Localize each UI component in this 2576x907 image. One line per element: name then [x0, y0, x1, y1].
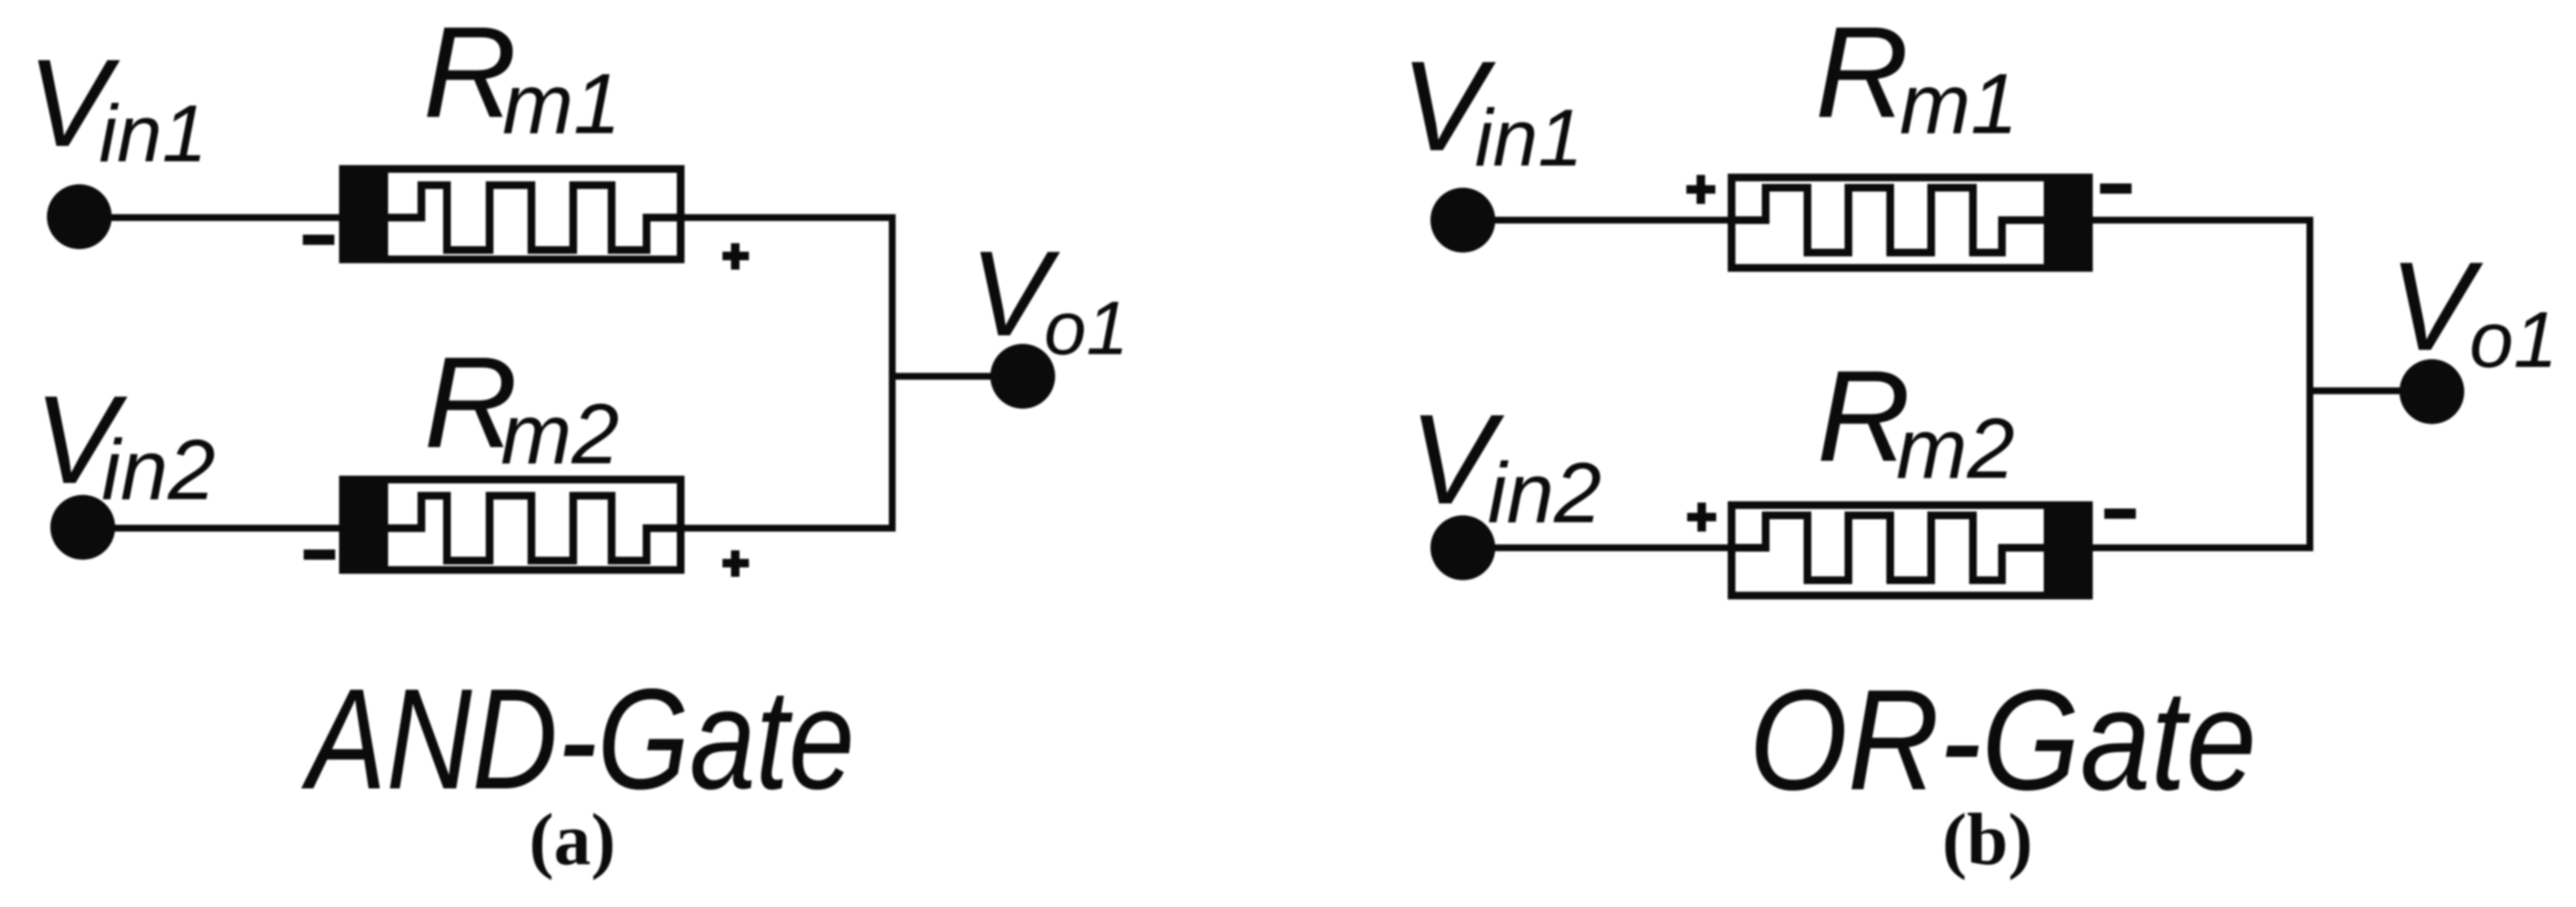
polarity minus of Rm1 (OR): [2100, 183, 2132, 194]
label Vo1 (AND gate): [970, 226, 1128, 370]
wire Vin2 to Rm2 (OR): [1463, 544, 1728, 551]
caption AND-Gate: [301, 659, 855, 819]
label Vin2 (AND gate): [34, 370, 215, 518]
memristor Rm1 (AND gate): [339, 166, 681, 263]
polarity plus of Rm1 (AND): [722, 243, 749, 270]
memristor Rm2 (OR gate): [1732, 502, 2092, 599]
label Vin2 (OR gate): [1409, 387, 1601, 541]
label Vin1 (AND gate): [27, 33, 207, 179]
wire Vin1 to Rm1 (AND): [79, 214, 339, 221]
svg-text:(b): (b): [1942, 798, 2033, 881]
wire output tap (AND): [892, 373, 1023, 380]
wire Rm2 to output branch (AND): [684, 525, 892, 532]
svg-text:in2: in2: [102, 422, 215, 518]
caption (a): [529, 798, 615, 881]
wire Vin2 to Rm2 (AND): [83, 525, 339, 532]
node Vin1 (AND gate): [47, 184, 112, 249]
label Rm2 (OR gate): [1817, 344, 2015, 497]
wire Rm2 to output branch (OR): [2092, 544, 2310, 551]
svg-text:OR-Gate: OR-Gate: [1749, 660, 2257, 820]
svg-text:in1: in1: [1475, 93, 1583, 183]
wire Vin1 to Rm1 (OR): [1463, 217, 1728, 224]
svg-text:o1: o1: [2469, 295, 2557, 384]
caption (b): [1942, 798, 2033, 881]
svg-text:in1: in1: [99, 89, 207, 179]
polarity plus of Rm2 (OR): [1687, 503, 1716, 532]
polarity plus of Rm1 (OR): [1686, 175, 1715, 204]
svg-text:m1: m1: [1900, 56, 2018, 152]
label Rm1 (OR gate): [1815, 0, 2018, 152]
node Vin1 (OR gate): [1430, 188, 1495, 253]
label Rm1 (AND gate): [423, 0, 621, 152]
label Rm2 (AND gate): [424, 330, 619, 482]
node Vo1 (OR gate): [2399, 359, 2464, 424]
node Vin2 (AND gate): [50, 495, 115, 560]
node Vin2 (OR gate): [1430, 515, 1495, 580]
svg-text:m1: m1: [502, 56, 621, 152]
polarity minus of Rm2 (OR): [2104, 509, 2136, 519]
memristor Rm2 (AND gate): [339, 476, 681, 573]
svg-text:R: R: [1815, 0, 1909, 145]
svg-text:in2: in2: [1488, 445, 1601, 541]
wire Rm1 to output branch (AND): [684, 214, 892, 221]
polarity minus of Rm1 (AND): [303, 235, 334, 245]
svg-text:(a): (a): [529, 798, 615, 881]
node Vo1 (AND gate): [990, 344, 1055, 409]
wire output branch vertical (AND): [889, 214, 896, 532]
svg-text:o1: o1: [1044, 285, 1128, 370]
polarity plus of Rm2 (AND): [722, 550, 749, 577]
memristor Rm1 (OR gate): [1732, 174, 2092, 271]
label Vo1 (OR gate): [2389, 236, 2557, 384]
svg-text:AND-Gate: AND-Gate: [301, 659, 855, 819]
svg-text:m2: m2: [1896, 401, 2015, 497]
polarity minus of Rm2 (AND): [304, 549, 335, 560]
wire Rm1 to output branch (OR): [2092, 217, 2310, 224]
caption OR-Gate: [1749, 660, 2257, 820]
wire output branch vertical (OR): [2306, 217, 2313, 551]
svg-text:m2: m2: [501, 387, 619, 482]
label Vin1 (OR gate): [1401, 34, 1583, 183]
wire output tap (OR): [2310, 387, 2432, 394]
